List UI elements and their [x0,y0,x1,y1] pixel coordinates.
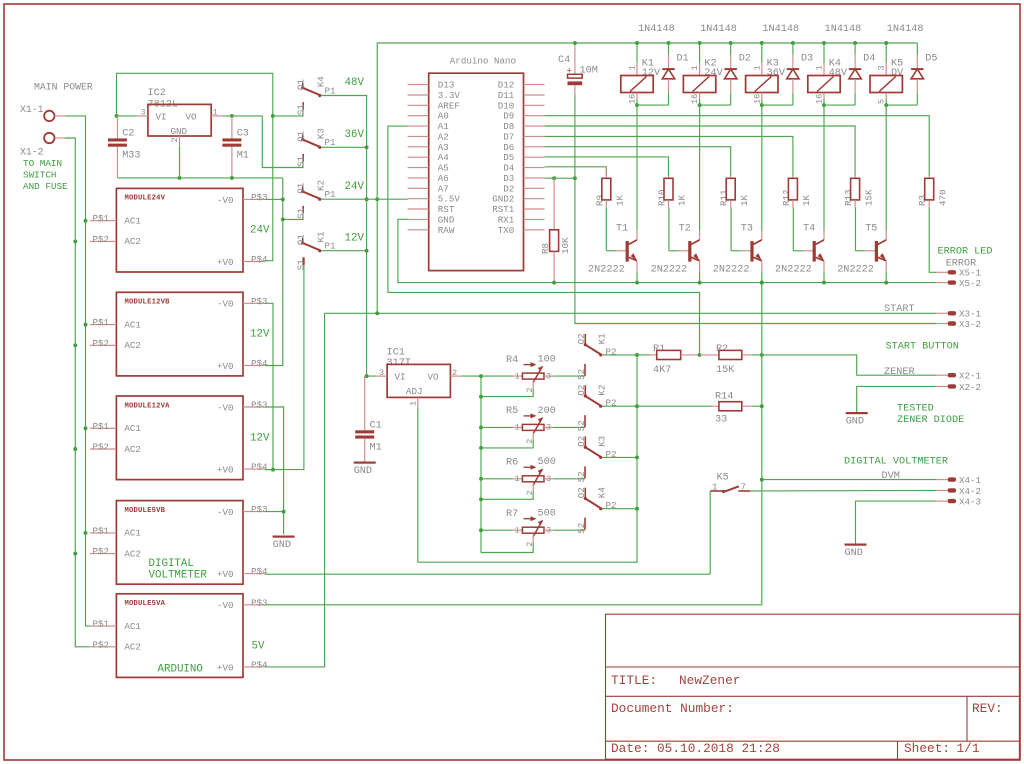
ground symbol below X4-3 [845,544,867,560]
connector label X3-1 [959,309,982,320]
svg-text:D13: D13 [438,80,455,91]
junction VO at C3 [230,114,234,118]
junction feedback bus top [635,353,639,357]
relay K5 coil labels [891,59,904,80]
wire IC1 ADJ to feedback bus [418,355,637,562]
svg-text:33: 33 [715,415,727,426]
diode D2 name label [739,53,751,64]
svg-text:P$3: P$3 [251,597,268,608]
svg-text:1: 1 [752,65,762,70]
regulator IC1 317T [376,364,462,407]
svg-text:GND: GND [438,214,455,225]
svg-text:D2: D2 [503,183,514,194]
svg-text:S2: S2 [576,420,587,431]
svg-text:24V: 24V [250,225,270,237]
svg-text:2N2222: 2N2222 [837,264,874,275]
connector X1-1 label [20,104,44,115]
title block Document Number label [611,701,734,716]
module MODULE5VB [90,501,268,585]
wire D5 to R10 [545,157,669,176]
svg-text:ERROR: ERROR [946,258,977,269]
svg-text:D7: D7 [503,131,514,142]
wire R6 wiper return [481,484,533,500]
junction AC2 bus y=449 [73,447,77,451]
diode D3 [787,43,799,105]
note DIGITAL VOLTMETER in MODULE5VB [149,558,208,582]
wire R6 output to S2 [554,478,586,480]
svg-text:36V: 36V [345,129,365,141]
resistor R1 labels [653,344,671,376]
svg-text:C2: C2 [122,129,134,140]
junction K1 coil low side [635,103,639,107]
note DIGITAL VOLTMETER [844,457,948,468]
junction R14 right [760,404,764,408]
svg-text:D12: D12 [498,80,515,91]
wire X2-2 to its ground [857,386,937,412]
svg-text:-V0: -V0 [217,600,234,611]
junction supply at D4 [853,41,857,45]
relay contact K2 pole P1 [295,180,336,219]
regulator IC2 7812L [137,104,223,146]
svg-text:DVM: DVM [882,471,900,482]
relay K5 coil [870,43,902,105]
svg-text:Sheet:: Sheet: [904,741,950,756]
transistor T2 2N2222 [688,240,699,262]
wire T3 base from resistor [731,208,752,251]
svg-text:P$3: P$3 [251,192,268,203]
connector label X5-2 [959,278,981,289]
wire D3 row [545,177,575,179]
junction K5 coil low side [884,103,888,107]
svg-text:P$2: P$2 [93,546,110,557]
junction supply at K4 coil [822,41,826,45]
svg-text:R10: R10 [657,189,668,206]
wire MODULE12VB -V0 to MODULE12VA +V0 [265,303,273,469]
resistor R13 [851,176,860,207]
svg-text:05.10.2018 21:28: 05.10.2018 21:28 [657,741,780,756]
module MODULE12VB [90,292,268,376]
svg-text:T3: T3 [741,224,753,235]
wire relay supply bus [377,43,917,313]
label 12V [345,232,365,244]
svg-text:2N2222: 2N2222 [713,264,750,275]
wire MODULE5VA -V0 to measure ground bus [265,480,762,605]
svg-text:16: 16 [690,94,700,104]
wire K2 P2 to feedback bus [602,405,637,407]
svg-text:AC1: AC1 [124,423,141,434]
capacitor C3 [222,116,249,178]
svg-text:P$4: P$4 [251,462,268,473]
svg-text:3: 3 [546,423,551,433]
svg-text:AC1: AC1 [124,528,141,539]
svg-text:R14: R14 [715,392,733,403]
trimmer R5 [481,413,554,443]
connector pad X3-2 [936,321,956,325]
relay K4 coil labels [829,59,848,80]
relay K3 coil [746,43,778,105]
svg-text:O2: O2 [576,436,587,447]
connector X1-1 [44,111,65,121]
svg-text:GND: GND [171,126,188,137]
wire D2 to relay low side [700,104,731,106]
svg-text:Date:: Date: [611,741,649,756]
svg-text:2N2222: 2N2222 [775,264,812,275]
note ERROR LED [938,247,993,258]
junction feed bus at R6 return [479,497,483,501]
diode D1 name label [677,53,689,64]
svg-text:P$1: P$1 [93,317,110,328]
junction feed bus at R4 [479,374,483,378]
transistor T4 name label [803,224,815,235]
svg-text:K1: K1 [597,333,608,345]
title block Sheet label [904,741,950,756]
svg-text:P$2: P$2 [93,338,110,349]
title block date value [657,741,780,756]
relay contact K3 pole P1 [295,128,336,167]
svg-text:1: 1 [213,108,218,118]
svg-text:-V0: -V0 [217,507,234,518]
wire K1 P2 to feedback bus [602,354,637,356]
svg-text:RST: RST [438,204,455,215]
svg-text:P2: P2 [606,346,617,357]
svg-text:D3: D3 [503,173,514,184]
svg-text:ZENER: ZENER [884,367,915,378]
wire K5 common down to DVM module [709,491,711,574]
svg-text:3: 3 [546,371,551,381]
wire K1 S1 stub [303,257,305,265]
svg-text:NewZener: NewZener [679,673,740,688]
junction 12V tap [271,468,275,472]
wire A1 sense line [388,126,700,355]
wire R7 wiper return [481,535,533,552]
title block [606,614,1020,759]
svg-text:A6: A6 [438,173,449,184]
label 1N4148 for D4 [825,24,862,35]
svg-text:T4: T4 [803,224,815,235]
svg-text:P1: P1 [325,241,337,252]
capacitor C2 [108,116,141,178]
svg-text:M33: M33 [122,151,140,162]
svg-text:RST1: RST1 [492,204,515,215]
junction AC2 bus y=345.3 [73,343,77,347]
svg-text:P2: P2 [606,449,617,460]
junction divider mid at A1 [698,353,702,357]
wire T4 collector [823,105,825,240]
junction IC2 VI [115,114,119,118]
relay K1 coil labels [642,59,661,80]
relay contact K3 pole P2 [576,436,616,483]
svg-text:3: 3 [379,368,384,378]
svg-text:P$1: P$1 [93,525,110,536]
wire X4-3 to its ground [856,501,937,543]
trimmer R4 labels [506,355,556,366]
junction divider at ground bus [760,353,764,357]
svg-text:VOLTMETER: VOLTMETER [149,570,208,582]
svg-text:K5: K5 [717,473,729,484]
svg-text:O1: O1 [295,130,306,142]
svg-text:R2: R2 [716,344,728,355]
svg-text:M1: M1 [237,151,249,162]
resistor R14 [637,402,762,411]
svg-text:P1: P1 [325,137,337,148]
title block REV label [972,701,1003,716]
svg-text:1: 1 [515,371,520,381]
svg-text:AREF: AREF [438,100,460,111]
transistor T2 value 2N2222 [651,264,688,275]
junction supply bus at C4 [573,41,577,45]
svg-text:MODULE12VB: MODULE12VB [125,299,171,307]
junction AC1 bus y=220.7 [84,219,88,223]
svg-text:S1: S1 [295,104,306,116]
title block title value NewZener [679,673,740,688]
svg-text:GND: GND [846,417,864,428]
junction T2 emitter [698,281,702,285]
capacitor C4 label [558,55,570,66]
svg-text:RX1: RX1 [498,214,515,225]
resistor R11 [726,176,735,207]
svg-text:2: 2 [170,137,180,142]
capacitor C1 [355,376,382,461]
svg-text:P2: P2 [606,398,617,409]
svg-text:24V: 24V [345,181,365,193]
junction AC1 bus y=532.9 [84,531,88,535]
note TESTED ZENER DIODE [897,404,964,426]
junction AC1 bus y=324.6 [84,323,88,327]
label 48V [345,77,365,89]
svg-text:START: START [884,304,915,315]
wire T3 collector [761,105,763,240]
svg-text:O2: O2 [576,487,587,498]
note MAIN POWER [34,81,93,92]
svg-text:P$3: P$3 [251,296,268,307]
label 24V [345,181,365,193]
junction D3 at R8 [552,176,556,180]
wire D6 to R11 [545,147,731,177]
svg-text:1K: 1K [615,194,626,206]
junction 5V bus at selector crossing [375,197,379,201]
connector label X4-3 [959,497,981,508]
wire IC2 GND drop [179,146,181,178]
svg-text:AC1: AC1 [124,621,141,632]
svg-text:1: 1 [515,474,520,484]
svg-text:ERROR LED: ERROR LED [938,247,993,258]
svg-text:R5: R5 [506,406,518,417]
wire T1 base from resistor [606,208,627,251]
relay contact K1 pole P1 [295,231,336,270]
svg-text:K4: K4 [597,487,608,499]
svg-text:2: 2 [452,368,457,378]
ground symbol below C1 [354,462,376,478]
svg-text:Document Number:: Document Number: [611,701,734,716]
wire MODULE5VB +V0 to K5 [265,573,710,575]
connector pad X5-2 [936,280,956,284]
svg-text:1N4148: 1N4148 [825,24,862,35]
svg-text:R6: R6 [506,458,518,469]
label 1N4148 for D5 [887,24,924,35]
note START BUTTON [886,342,959,353]
svg-text:START BUTTON: START BUTTON [886,342,959,353]
svg-text:T2: T2 [679,224,691,235]
transistor T2 name label [679,224,691,235]
resistor R9 [602,167,611,208]
svg-text:+V0: +V0 [217,257,234,268]
relay contact K4 pole P2 [576,487,616,534]
junction T1 emitter [635,281,639,285]
label 1N4148 for D1 [638,24,675,35]
svg-text:C3: C3 [237,129,249,140]
svg-text:X2-1: X2-1 [959,371,982,382]
wire VI stub [117,115,137,117]
svg-text:R1: R1 [653,344,665,355]
svg-text:DIGITAL: DIGITAL [149,558,194,570]
svg-text:15K: 15K [863,189,874,206]
module MODULE12VA [90,396,268,480]
svg-text:1K: 1K [677,194,688,206]
svg-text:P1: P1 [325,189,337,200]
diode D4 name label [863,53,875,64]
svg-text:VI: VI [395,372,406,383]
connector pad X4-2 [936,488,956,492]
junction T5 emitter [884,281,888,285]
svg-text:R13: R13 [843,189,854,206]
svg-text:AC1: AC1 [124,319,141,330]
svg-text:+V0: +V0 [217,361,234,372]
svg-text:P2: P2 [606,500,617,511]
svg-text:-V0: -V0 [217,195,234,206]
connector pad X4-3 [936,499,956,503]
svg-text:AC2: AC2 [124,548,141,559]
connector label X4-1 [959,475,982,486]
label 12V of MODULE12VB [250,329,270,341]
transistor T4 2N2222 [813,240,824,262]
wire MODULE12VA -V0 down to MODULE5VB -V0 and GND [265,407,284,535]
trimmer R6 [481,465,554,495]
junction T3 emitter [760,281,764,285]
svg-text:S2: S2 [576,471,587,482]
diode D1 [662,43,674,105]
svg-text:-V0: -V0 [217,402,234,413]
wire T1 collector [636,105,638,240]
svg-text:C1: C1 [370,420,382,431]
wire R3 to X5-1 [929,208,936,273]
svg-text:3: 3 [546,474,551,484]
junction selector bus at IC1 VI [365,374,369,378]
transistor T5 2N2222 [875,240,886,262]
relay K3 coil labels [767,59,786,80]
svg-text:S1: S1 [295,207,306,219]
wire T1 emitter to ground bus [636,261,638,283]
diode D3 name label [801,53,813,64]
wire D3 to relay low side [762,104,793,106]
junction selector bus K3 [365,145,369,149]
svg-text:+V0: +V0 [217,569,234,580]
note TO MAIN SWITCH AND FUSE [23,158,68,192]
diode D4 [849,43,861,105]
resistor R13 labels [843,189,874,206]
junction MODULE5VB -V0 [282,510,286,514]
svg-text:MAIN POWER: MAIN POWER [34,81,93,92]
svg-text:1N4148: 1N4148 [887,24,924,35]
svg-text:D9: D9 [503,111,514,122]
note ARDUINO in MODULE5VA [158,664,203,676]
svg-text:D1: D1 [677,53,689,64]
svg-text:AC2: AC2 [124,340,141,351]
IC1 label [387,348,411,370]
svg-text:16: 16 [628,94,638,104]
svg-text:X3-2: X3-2 [959,319,981,330]
svg-text:MODULE5VA: MODULE5VA [125,600,166,608]
wire D8 to R13 [545,126,856,176]
IC U1 Arduino Nano title [450,56,516,67]
wire T5 base from resistor [856,208,877,251]
svg-text:GND: GND [354,466,372,477]
svg-text:A4: A4 [438,152,450,163]
resistor R12 labels [781,189,812,206]
wire R4 wiper return [481,381,533,397]
diode D2 [725,43,737,105]
svg-text:D4: D4 [863,53,875,64]
connector X1-2 label [20,146,44,157]
ground symbol below X2-2 [846,412,868,428]
wire C4 bottom / START signal to X3-2 [575,95,936,324]
svg-text:ADJ: ADJ [406,386,423,397]
svg-text:GND: GND [845,548,863,559]
svg-text:ARDUINO: ARDUINO [158,664,203,676]
connector label X5-1 [959,268,982,279]
svg-text:1N4148: 1N4148 [762,24,799,35]
wire selector bus to IC1 VI [321,96,376,377]
wire X1-1 to AC1 bus [65,116,90,626]
connector pad X5-1 [936,270,956,274]
svg-text:A7: A7 [438,183,449,194]
resistor R2 [700,350,762,359]
transistor T3 2N2222 [750,240,761,262]
svg-text:D5: D5 [503,152,514,163]
svg-text:16: 16 [752,94,762,104]
svg-text:P$3: P$3 [251,400,268,411]
title block Date label [611,741,649,756]
svg-text:TX0: TX0 [498,225,515,236]
connector pad X2-2 [936,384,956,388]
wire divider ground bus / X2-1 tap [762,283,936,480]
svg-text:VO: VO [186,112,198,123]
svg-text:1: 1 [408,401,418,406]
svg-text:1K: 1K [739,194,750,206]
transistor T4 value 2N2222 [775,264,812,275]
svg-text:X1-2: X1-2 [20,146,44,157]
svg-text:P$2: P$2 [93,639,110,650]
resistor R2 labels [716,344,735,376]
label 24V of MODULE24V [250,225,270,237]
junction feed bus at R4 return [479,395,483,399]
svg-text:1K: 1K [801,194,812,206]
title block TITLE label [611,673,657,688]
junction feedback bus K2 [635,404,639,408]
svg-text:O1: O1 [295,234,306,246]
resistor R8 [550,178,559,282]
svg-text:3: 3 [877,65,887,70]
junction ground bus at T3 emitter column [760,281,764,285]
transistor T5 value 2N2222 [837,264,874,275]
label 12V of MODULE12VA [250,432,270,444]
resistor R12 [788,176,797,207]
svg-text:TITLE:: TITLE: [611,673,657,688]
junction feedback bus K4 [635,507,639,511]
junction bus at MODULE24V -V0 [281,197,285,201]
svg-text:IC2: IC2 [148,88,166,99]
svg-text:P$1: P$1 [93,213,110,224]
svg-text:12V: 12V [250,432,270,444]
